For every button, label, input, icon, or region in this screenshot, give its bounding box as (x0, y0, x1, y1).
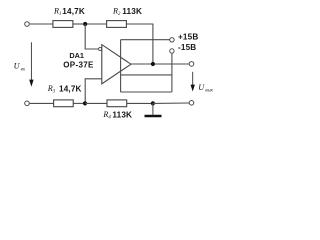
svg-text:14,7K: 14,7K (59, 85, 82, 94)
junction: ground node (151, 101, 155, 105)
arrow Uin (30, 42, 32, 81)
arrow Uout (192, 72, 194, 86)
wire: ground node to output return terminal (153, 102, 189, 104)
svg-text:113K: 113K (112, 111, 132, 120)
svg-text:-15В: -15В (178, 43, 196, 52)
wire: +15V feed from stub corner to terminal (121, 39, 170, 41)
wire: node A down to inverting input (85, 24, 98, 49)
wire: R2 to feedback corner (126, 23, 153, 25)
svg-text:DA1: DA1 (69, 51, 84, 60)
terminal +15V (170, 38, 174, 42)
output terminal bottom (189, 101, 194, 106)
input terminal top (+) (25, 22, 30, 27)
wire: R1 to node A (73, 23, 85, 25)
wire: node A to R2 (85, 23, 106, 25)
wire: node B up to non-inverting input (85, 79, 102, 104)
wire: R4 to ground node (127, 102, 153, 104)
ground (152, 103, 154, 114)
svg-text:1: 1 (59, 12, 61, 17)
inverting input inversion circle (99, 47, 102, 50)
svg-text:14,7K: 14,7K (62, 7, 85, 16)
wire: supply stub vertical through op-amp body (120, 40, 122, 92)
svg-text:вых: вых (205, 88, 213, 93)
junction node A (inverting input node) (83, 22, 87, 26)
output terminal top (189, 62, 194, 67)
resistor R3 (54, 100, 74, 107)
wire: parallel horizontal V- feed (121, 74, 172, 76)
wire: input- terminal to R3 (30, 102, 54, 104)
svg-text:+15В: +15В (178, 33, 198, 42)
terminal -15V (170, 49, 174, 53)
junction node B (non-inverting input node) (83, 101, 87, 105)
input terminal bottom (-) (25, 101, 30, 106)
wire: -15V feed down crossing output wire (171, 54, 173, 92)
resistor R1 (53, 21, 73, 28)
wire: feedback vertical down to output (152, 24, 154, 64)
wire: op-amp output (131, 63, 189, 65)
resistor R2 (107, 21, 127, 28)
op-amp DA1 triangle (102, 45, 131, 84)
svg-text:OP-37E: OP-37E (63, 61, 94, 70)
svg-text:113K: 113K (122, 7, 142, 16)
wire: input+ terminal to R1 (30, 23, 53, 25)
junction: feedback joins output (151, 62, 155, 66)
resistor R4 (107, 100, 127, 107)
wire: lower horizontal from -15V drop to V- stub (121, 91, 172, 93)
wire: node B to R4 (85, 102, 107, 104)
wire: R3 to node B (73, 102, 85, 104)
